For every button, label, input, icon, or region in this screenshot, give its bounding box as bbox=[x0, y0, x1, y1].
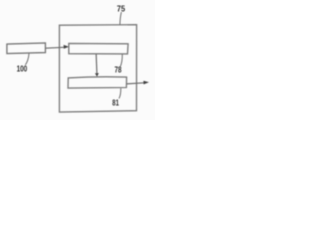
svg-text:75: 75 bbox=[117, 5, 126, 14]
svg-text:81: 81 bbox=[112, 98, 119, 107]
svg-text:78: 78 bbox=[114, 66, 122, 75]
svg-text:100: 100 bbox=[17, 65, 28, 74]
